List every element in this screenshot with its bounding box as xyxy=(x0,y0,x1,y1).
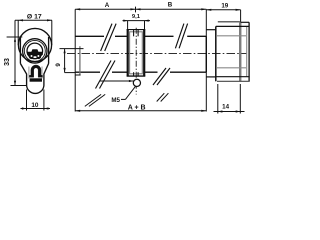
dimension 9 (left of side view) xyxy=(64,49,76,73)
dimension Ø17 xyxy=(15,19,52,45)
svg-text:33: 33 xyxy=(4,58,11,66)
dimension 19 xyxy=(206,9,240,77)
svg-text:9,1: 9,1 xyxy=(132,14,141,20)
plug rings xyxy=(23,39,47,63)
cam center line xyxy=(135,28,137,95)
svg-text:A: A xyxy=(105,2,110,9)
dimension 14 xyxy=(214,84,245,114)
extension line right end xyxy=(205,9,207,111)
extension line left end xyxy=(74,9,76,111)
knob head black outline xyxy=(216,22,250,81)
foot inner grey edges xyxy=(29,67,42,79)
cam xyxy=(127,30,146,77)
knob flange xyxy=(206,30,216,77)
break marks left xyxy=(96,24,117,89)
svg-text:B: B xyxy=(168,1,173,8)
plug line left end (side view) xyxy=(60,46,84,75)
dimension B xyxy=(136,8,207,10)
dimension A+B xyxy=(75,110,206,112)
svg-text:Ø 17: Ø 17 xyxy=(27,13,42,20)
cylinder profile outline (face view) xyxy=(18,28,51,93)
ABUS logo emblem xyxy=(29,65,42,82)
dimension 10 xyxy=(21,90,51,111)
break marks on A+B line xyxy=(85,93,169,106)
svg-text:10: 10 xyxy=(31,102,39,109)
svg-text:19: 19 xyxy=(221,3,228,10)
svg-text:A + B: A + B xyxy=(128,105,146,112)
dimension A xyxy=(75,7,135,13)
M5 screw hole xyxy=(133,79,140,86)
M5 leader line xyxy=(100,80,136,100)
center line xyxy=(67,53,247,55)
svg-text:14: 14 xyxy=(222,103,229,110)
break marks right xyxy=(153,24,188,85)
dimension 33 xyxy=(7,20,27,85)
cylinder body (side view) xyxy=(75,36,206,72)
keyway (XP20S profile) xyxy=(27,49,43,59)
svg-text:M5: M5 xyxy=(111,97,120,104)
dimension 9,1 xyxy=(123,20,151,30)
svg-text:9: 9 xyxy=(55,63,62,67)
knob head grey outline xyxy=(217,22,247,82)
